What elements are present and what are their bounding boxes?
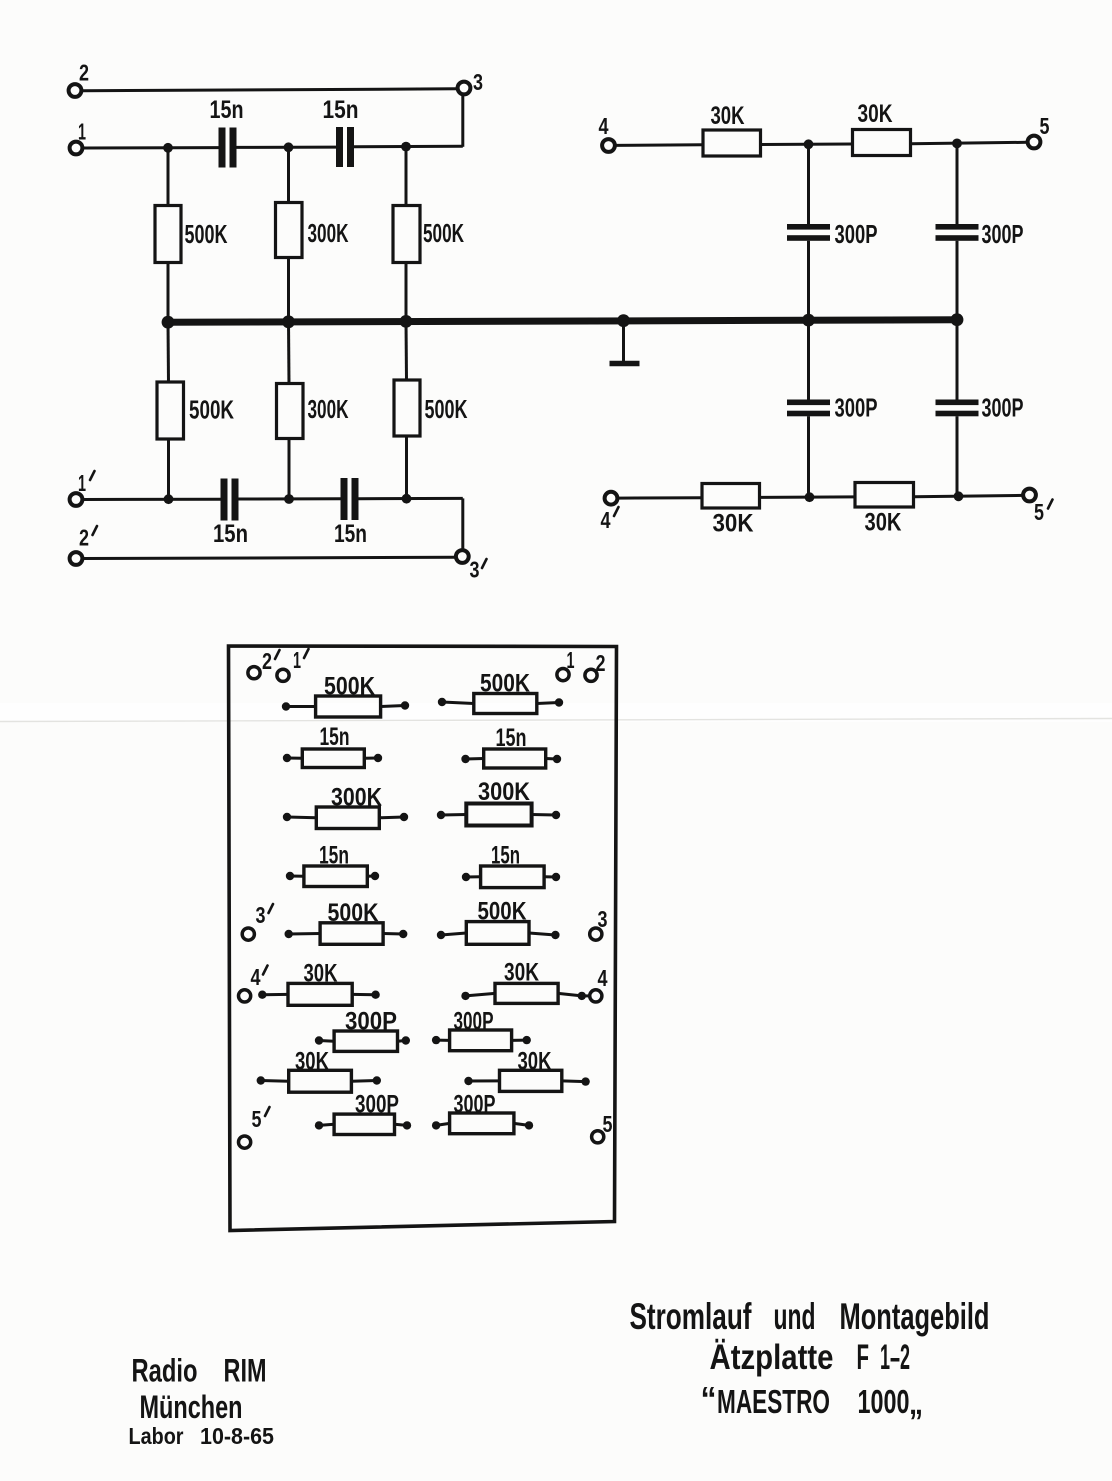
PCB pad 2 — [585, 669, 597, 681]
svg-text:5: 5 — [1040, 113, 1050, 139]
svg-text:30K: 30K — [518, 1048, 552, 1076]
svg-text:1: 1 — [567, 647, 575, 673]
wire terminal 4p to R9 — [618, 496, 702, 499]
PCB pad 4p — [239, 990, 251, 1002]
capacitor C3 15n — [221, 479, 239, 521]
capacitor C6 300P — [787, 400, 830, 417]
title line 1: Stromlauf und Montagebild — [630, 1296, 990, 1337]
svg-text:15n: 15n — [320, 723, 350, 751]
svg-text:15n: 15n — [491, 842, 520, 870]
svg-text:1000: 1000 — [858, 1383, 910, 1420]
svg-text:30K: 30K — [295, 1048, 329, 1076]
svg-text:300P: 300P — [835, 219, 878, 249]
svg-text:1: 1 — [78, 470, 86, 496]
terminal 5p — [1023, 489, 1036, 502]
wire col2 bus to R5 — [287, 322, 291, 385]
wire col3 upper lead — [405, 147, 408, 206]
svg-text:300K: 300K — [308, 394, 349, 424]
svg-text:300K: 300K — [478, 778, 530, 806]
svg-text:Ätzplatte: Ätzplatte — [710, 1338, 834, 1377]
PCB pad 3 — [590, 928, 602, 940]
svg-text:und: und — [774, 1296, 816, 1337]
wire R10 to terminal 5p — [914, 495, 1024, 496]
resistor R6 500K — [394, 380, 420, 436]
PCB label 4p — [251, 964, 268, 990]
svg-text:4: 4 — [251, 964, 261, 990]
svg-text:4: 4 — [599, 113, 609, 139]
svg-text:500K: 500K — [189, 395, 234, 425]
PCB component 500K right row5 — [437, 922, 560, 945]
PCB component 300P right row7 — [432, 1030, 531, 1051]
PCB pad 5 — [592, 1131, 604, 1143]
svg-text:2: 2 — [79, 525, 89, 551]
capacitor C5 300P — [787, 224, 830, 241]
junction row1p col1 — [164, 494, 174, 504]
label terminal 1p — [78, 470, 95, 496]
wire colA rail to C5 — [807, 144, 810, 224]
svg-text:F: F — [857, 1338, 870, 1377]
PCB label 5p — [252, 1106, 270, 1132]
ground symbol — [610, 321, 640, 364]
svg-text:500K: 500K — [423, 218, 464, 248]
wire col3 to row1p — [405, 436, 408, 499]
PCB label 2p — [262, 648, 280, 674]
PCB pad 4 — [590, 990, 602, 1002]
svg-text:15n: 15n — [213, 520, 248, 548]
PCB component 500K right row1 — [438, 694, 563, 714]
svg-text:30K: 30K — [865, 509, 902, 537]
svg-text:300P: 300P — [982, 393, 1024, 423]
resistor R10 30K — [855, 483, 914, 508]
svg-text:MAESTRO: MAESTRO — [717, 1383, 830, 1420]
svg-text:300P: 300P — [355, 1091, 399, 1119]
svg-text:30K: 30K — [858, 100, 893, 128]
junction top colB — [952, 139, 962, 149]
junction bus colA — [802, 314, 815, 327]
svg-text:300P: 300P — [454, 1091, 496, 1119]
resistor R4 500K — [157, 382, 184, 439]
svg-text:500K: 500K — [185, 219, 228, 249]
wire col3 to bus — [405, 263, 408, 323]
capacitor C8 300P — [936, 400, 979, 417]
svg-text:15n: 15n — [496, 724, 527, 752]
wire R8 to terminal 5 — [911, 142, 1028, 143]
svg-text:5: 5 — [1034, 499, 1044, 525]
wire riser from terminal 3 — [461, 95, 464, 147]
PCB label 1p — [293, 647, 309, 673]
wire row1p segment b — [239, 497, 341, 500]
PCB component 300K right row3 — [437, 804, 560, 826]
label terminal 3p — [470, 557, 487, 583]
PCB label 3p — [256, 902, 274, 928]
PCB pad 3p — [242, 928, 254, 940]
terminal 1p — [70, 493, 83, 506]
PCB board outline — [229, 646, 617, 1231]
label terminal 5p — [1034, 499, 1053, 525]
title line 2: Aetzplatte F 1-2 — [710, 1338, 911, 1377]
terminal 4 — [602, 139, 615, 152]
svg-text:500K: 500K — [425, 394, 468, 424]
junction bottom colA — [805, 492, 815, 502]
junction row1p col3 — [402, 494, 412, 504]
svg-text:300K: 300K — [331, 784, 382, 812]
PCB pad 5p — [239, 1136, 251, 1148]
label terminal 2p — [79, 525, 97, 551]
wire row1 segment c — [354, 145, 463, 149]
junction bus col3 — [400, 315, 413, 328]
wire col1 to row1p — [167, 439, 170, 500]
svg-text:15n: 15n — [319, 842, 349, 870]
PCB pad 1p — [277, 669, 289, 681]
label terminal 4p — [601, 507, 619, 533]
svg-text:30K: 30K — [713, 510, 754, 538]
svg-text:3: 3 — [473, 69, 483, 95]
junction row1 col2 — [284, 142, 294, 152]
wire terminal 2 to terminal 3 — [82, 89, 457, 91]
PCB component 15n left row4 — [286, 866, 379, 887]
svg-text:300P: 300P — [835, 393, 878, 423]
svg-text:Stromlauf: Stromlauf — [630, 1296, 752, 1337]
resistor R2 300K — [276, 203, 303, 258]
terminal 5 — [1028, 136, 1041, 149]
PCB component 300K left row3 — [283, 807, 408, 829]
wire row1p segment c — [359, 497, 463, 500]
svg-text:4: 4 — [598, 965, 608, 991]
scan light band — [0, 703, 1112, 722]
svg-text:2: 2 — [262, 648, 272, 674]
junction bus colB — [951, 313, 964, 326]
wire R7 to R8 — [761, 143, 853, 147]
svg-text:2: 2 — [79, 60, 89, 86]
svg-text:Montagebild: Montagebild — [840, 1296, 990, 1337]
svg-text:1: 1 — [78, 119, 86, 145]
svg-text:4: 4 — [601, 507, 611, 533]
junction bus col1 — [162, 316, 175, 329]
PCB component 15n right row2 — [461, 749, 561, 768]
resistor R5 300K — [277, 384, 304, 439]
wire row1p segment a — [83, 498, 221, 501]
PCB component 300P right row9 — [432, 1113, 533, 1134]
resistor R8 30K — [853, 130, 911, 156]
wire R9 to R10 — [760, 495, 856, 499]
svg-text:30K: 30K — [711, 102, 745, 130]
svg-text:500K: 500K — [328, 899, 379, 927]
svg-text:RIM: RIM — [224, 1353, 267, 1389]
resistor R3 500K — [393, 206, 420, 263]
wire col1 to bus — [167, 263, 170, 324]
svg-text:3: 3 — [256, 902, 266, 928]
junction row1 col3 — [401, 142, 411, 152]
ground bus (thick) — [166, 320, 959, 323]
junction row1 col1 — [163, 143, 173, 153]
svg-text:„: „ — [909, 1384, 923, 1421]
svg-text:15n: 15n — [210, 96, 244, 124]
wire row1 segment a — [83, 146, 219, 149]
svg-text:3: 3 — [470, 557, 480, 583]
terminal 1 — [70, 142, 83, 155]
imprint line 3: Labor 10-8-65 — [129, 1423, 275, 1449]
svg-text:30K: 30K — [504, 959, 539, 987]
wire colA C5 to bus — [807, 241, 810, 321]
junction bus ground tap — [617, 314, 630, 327]
wire terminal 4 to R7 — [616, 143, 704, 147]
svg-text:500K: 500K — [324, 673, 375, 701]
svg-text:2: 2 — [596, 650, 606, 676]
wire col3 bus to R6 — [405, 321, 409, 381]
terminal 4p — [605, 492, 618, 505]
junction row1p col2 — [284, 494, 294, 504]
svg-text:“: “ — [701, 1380, 717, 1417]
wire riser to terminal 3p — [461, 498, 464, 549]
title line 3: MAESTRO 1000 — [701, 1380, 924, 1421]
svg-text:15n: 15n — [334, 520, 367, 548]
wire col1 bus to R4 — [167, 322, 171, 383]
resistor R1 500K — [155, 206, 181, 263]
terminal 2 — [69, 84, 82, 97]
PCB component 500K left row1 — [282, 696, 409, 717]
svg-text:Radio: Radio — [132, 1353, 198, 1389]
wire colB C7 to bus — [956, 241, 959, 321]
svg-text:300P: 300P — [345, 1008, 397, 1036]
wire colA C6 to bottom rail — [807, 416, 810, 497]
PCB component 30K left row8 — [257, 1070, 381, 1092]
resistor R7 30K — [703, 130, 761, 156]
svg-text:5: 5 — [252, 1106, 262, 1132]
capacitor C4 15n — [341, 478, 359, 520]
PCB component 30K left row6 — [258, 983, 380, 1005]
svg-text:500K: 500K — [478, 898, 527, 926]
svg-text:5: 5 — [603, 1111, 613, 1137]
wire colB bus to C8 — [956, 320, 959, 401]
PCB component 30K right row8 — [464, 1070, 590, 1091]
capacitor C2 15n — [336, 127, 354, 167]
svg-text:München: München — [140, 1389, 243, 1425]
PCB component 300P left row7 — [315, 1031, 410, 1051]
wire col2 to bus — [287, 258, 290, 323]
PCB component 15n left row2 — [283, 749, 382, 768]
svg-text:30K: 30K — [304, 960, 338, 988]
junction top colA — [804, 139, 814, 149]
wire row1 segment b — [237, 146, 337, 149]
wire colA bus to C6 — [807, 320, 810, 400]
svg-text:300P: 300P — [982, 219, 1024, 249]
PCB component 500K left row5 — [285, 923, 408, 945]
svg-text:300P: 300P — [454, 1008, 494, 1036]
terminal 3 — [458, 82, 471, 95]
svg-text:Labor: Labor — [129, 1423, 184, 1449]
capacitor C7 300P — [936, 224, 979, 241]
PCB pad 1 — [557, 669, 569, 681]
wire colB C8 to bottom rail — [956, 416, 959, 496]
svg-text:3: 3 — [598, 906, 608, 932]
PCB component 15n right row4 — [462, 866, 560, 888]
svg-text:10-8-65: 10-8-65 — [200, 1423, 274, 1449]
svg-text:1–2: 1–2 — [880, 1338, 910, 1377]
PCB component 30K right row6 — [461, 983, 586, 1003]
PCB pad 2p — [248, 667, 260, 679]
wire col1 upper lead — [167, 148, 170, 206]
svg-text:15n: 15n — [323, 96, 359, 124]
svg-text:300K: 300K — [308, 218, 349, 248]
terminal 3p — [456, 550, 469, 563]
imprint line 1: Radio RIM — [132, 1353, 267, 1389]
PCB component 300P left row9 — [315, 1114, 411, 1134]
svg-text:500K: 500K — [480, 670, 530, 698]
wire colB rail to C7 — [956, 143, 959, 224]
capacitor C1 15n — [219, 128, 237, 168]
svg-text:1: 1 — [293, 647, 301, 673]
wire col2 upper lead — [287, 147, 290, 203]
wire col2 to row1p — [288, 438, 291, 499]
wire terminal 2p to 3p — [83, 557, 455, 558]
junction bottom colB — [954, 491, 964, 501]
junction bus col2 — [282, 315, 295, 328]
terminal 2p — [70, 552, 83, 565]
resistor R9 30K — [702, 484, 760, 509]
PCB wire pad4 lead — [582, 994, 590, 997]
